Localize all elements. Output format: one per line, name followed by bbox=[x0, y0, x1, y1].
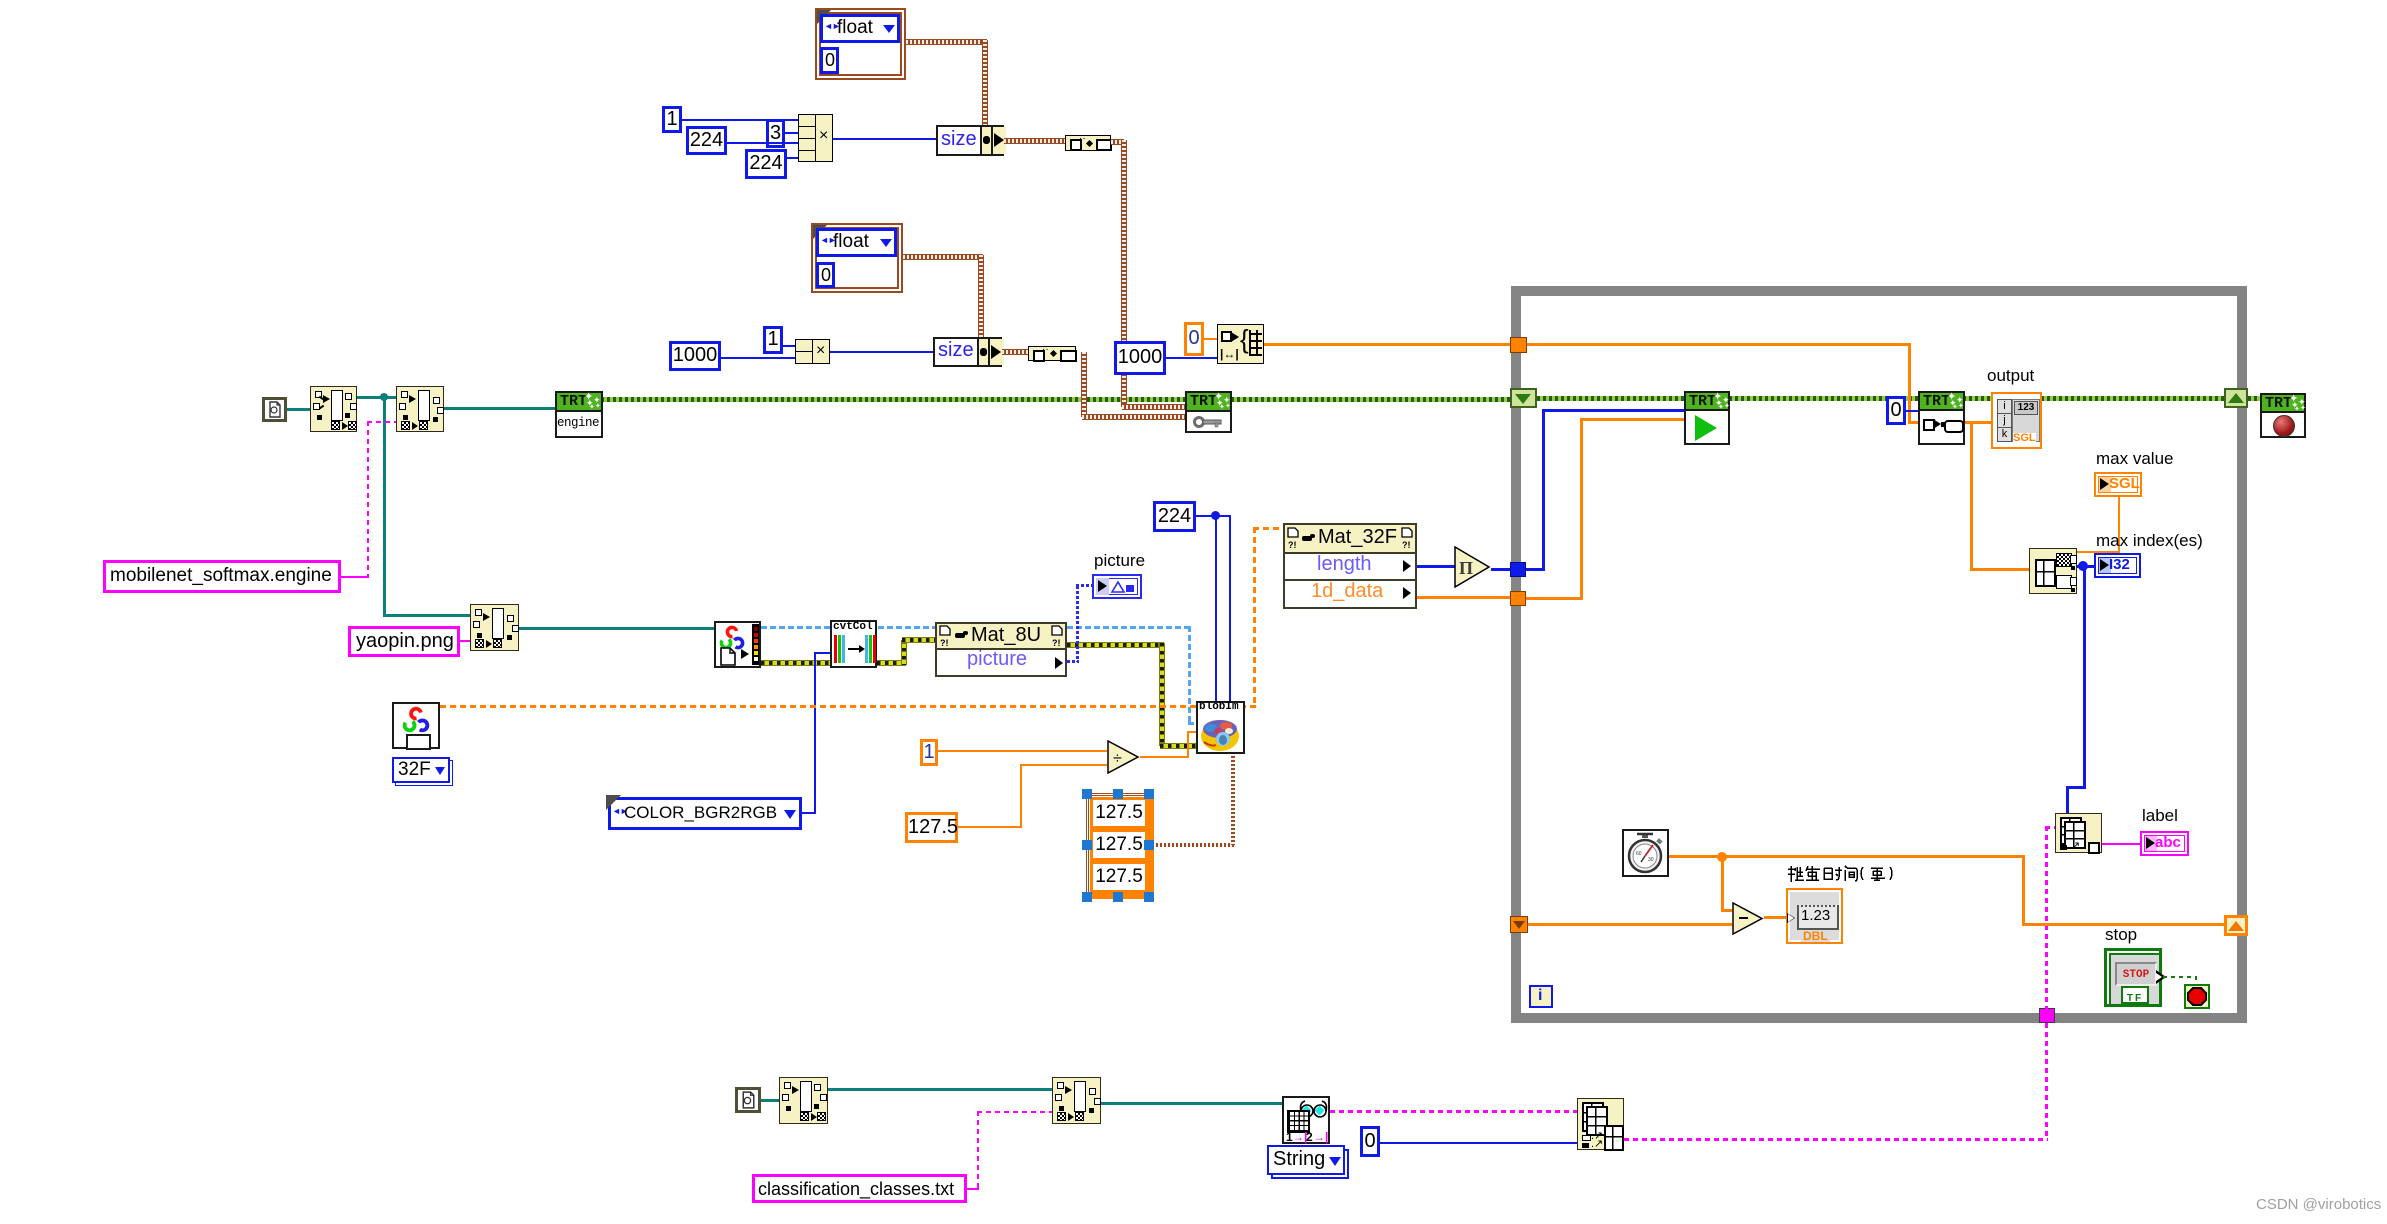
dropdown: 32F bbox=[392, 757, 450, 783]
dropdown: String bbox=[1267, 1145, 1345, 1175]
wire: brown size1 to bundle1 bbox=[1004, 139, 1065, 143]
shift register right lower (orange) bbox=[2224, 915, 2248, 936]
node: multiply array elements bbox=[1454, 546, 1491, 588]
node: array-to-cluster bundle (2) bbox=[1028, 346, 1076, 361]
wire: magenta classes to build path bbox=[967, 1188, 979, 1190]
wire: 0 to initialize array bbox=[1204, 338, 1217, 340]
wire: orange array to loop tunnel bbox=[1264, 343, 1516, 346]
indicator: output (SGL array) bbox=[1991, 392, 2042, 449]
wire: magenta label string from tunnel up to index array bbox=[2045, 826, 2048, 1009]
tunnel: orange (1d_data) bbox=[1510, 591, 1526, 606]
wire: blue to loop tunnel bbox=[1491, 568, 1516, 571]
string constant mobilenet_softmax.engine bbox=[103, 560, 341, 593]
numeric constant 127.5 (divisor) bbox=[905, 812, 958, 843]
tunnel: blue (length) bbox=[1510, 562, 1526, 577]
shift register right (green) bbox=[2224, 388, 2248, 408]
node: tick count (stopwatch) bbox=[1622, 829, 1669, 877]
wire: orange tick to subtract and loop bbox=[1669, 855, 1723, 858]
wire: green TRT engine refnum main line bbox=[601, 397, 1512, 402]
node: TRT destroy bbox=[2260, 393, 2306, 438]
wire: orange max value up to SGL indicator bbox=[2077, 551, 2120, 553]
wire: magenta label to loop (long) bbox=[1624, 1138, 2048, 1141]
wire: yellow Mat imread->cvtCol bbox=[761, 661, 830, 665]
label max value bbox=[2096, 449, 2173, 469]
svg-text:?!: ?! bbox=[1052, 638, 1061, 647]
indicator: I32 (max index) bbox=[2094, 553, 2141, 578]
wire: divide out to blobImage bbox=[1140, 756, 1189, 758]
wire: magenta index array to abc indicator bbox=[2102, 843, 2140, 845]
numeric constant 224 (blob size) bbox=[1153, 501, 1196, 532]
node: build path (classes) bbox=[1052, 1077, 1101, 1124]
wire: light blue Mat_8U to blobImage bbox=[1067, 626, 1191, 629]
while loop border bbox=[1511, 286, 2247, 1023]
numeric constant 224 (a) bbox=[686, 126, 727, 155]
wire: teal strip to build path with junction bbox=[357, 396, 396, 399]
wire: compound2 to size2 bbox=[830, 351, 933, 353]
node: Mat_8U property node bbox=[935, 622, 1067, 677]
indicator: abc (label) bbox=[2140, 831, 2189, 856]
label max index(es) bbox=[2096, 531, 2203, 551]
wire: teal build path to TRT engine bbox=[444, 407, 555, 410]
wire: magenta string array read to index array bbox=[1330, 1110, 1577, 1113]
numeric constant 0 (orange) bbox=[1184, 322, 1204, 356]
svg-text:30: 30 bbox=[1648, 857, 1654, 863]
wire: blue max index to I32 and down bbox=[2077, 565, 2094, 568]
wire: teal vi to strip path (bottom) bbox=[761, 1099, 779, 1102]
shift register left lower (orange) bbox=[1510, 916, 1528, 933]
string constant yaopin.png bbox=[348, 626, 460, 657]
wire: 1000 to compound2 bbox=[721, 357, 795, 359]
wire: orange 1d_data to loop tunnel bbox=[1417, 596, 1516, 599]
compound arithmetic multiply (4 inputs) bbox=[798, 114, 833, 162]
wire: 127.5 to divide bbox=[958, 826, 1022, 828]
wire: green boolean stop to condition bbox=[2163, 976, 2197, 978]
tunnel: magenta bottom (label string) bbox=[2039, 1008, 2055, 1023]
wire: 224a to compound bbox=[727, 142, 798, 144]
wire: 1 to divide bbox=[938, 750, 1107, 752]
wire: blue 224 to blobImage (two branches) bbox=[1196, 515, 1231, 517]
svg-text:Π: Π bbox=[1459, 558, 1473, 578]
node: index array (label lookup) bbox=[2055, 813, 2102, 853]
wire: brown bundle1 down to TRT key bbox=[1111, 140, 1124, 144]
node: current VI path icon (bottom) bbox=[735, 1087, 761, 1113]
wire: yellow Mat cvtCol->Mat_8U bbox=[877, 661, 906, 665]
node: build path (engine) bbox=[396, 386, 444, 432]
shift register left (green) bbox=[1510, 388, 1537, 408]
control: stop button bbox=[2104, 948, 2162, 1007]
node: array max & min bbox=[2029, 548, 2077, 594]
loop condition terminal (stop sign) bbox=[2184, 984, 2210, 1009]
svg-text:?!: ?! bbox=[1288, 540, 1297, 549]
wire: yellow Mat Mat_8U->blobImage bbox=[1067, 643, 1164, 647]
wire: teal vi path to strip path bbox=[287, 408, 310, 411]
wire: orange subtract to DBL bbox=[1764, 916, 1786, 919]
numeric constant 3 bbox=[766, 119, 785, 148]
node: strip path bbox=[310, 386, 357, 432]
selection handles on cluster bbox=[1082, 789, 1092, 799]
wire: green refnum inside loop bbox=[1537, 396, 2226, 401]
svg-text:60: 60 bbox=[1636, 851, 1642, 857]
wire: blue length to multiply-elements bbox=[1417, 565, 1455, 568]
node: array-to-cluster bundle (1) bbox=[1065, 135, 1111, 151]
wire: brown cluster from float1 to size1 bbox=[906, 40, 987, 44]
node: TRT key (load engine) bbox=[1185, 391, 1232, 433]
wire: orange previous time from shift register to subtract bbox=[1528, 923, 1732, 926]
node: current VI path icon bbox=[262, 397, 287, 422]
node: TRT create engine bbox=[555, 391, 603, 438]
node: Mat_32F property node bbox=[1283, 523, 1417, 609]
wire: brown size2 to bundle2 bbox=[1002, 350, 1028, 354]
wire: teal strip to build path (bottom) bbox=[828, 1088, 1052, 1091]
watermark bbox=[2256, 1196, 2381, 1213]
numeric constant 1 (orange) bbox=[920, 739, 938, 766]
numeric constant 1000 bbox=[669, 341, 721, 371]
compound arithmetic multiply (2 inputs) bbox=[795, 339, 830, 364]
wire: 1b to compound2 bbox=[783, 345, 795, 347]
label output bbox=[1987, 366, 2034, 386]
constant: OpenCV mat type (32F) bbox=[392, 702, 440, 749]
node: initialize array bbox=[1217, 324, 1264, 364]
wire: 3 to compound bbox=[785, 132, 798, 134]
svg-text:÷: ÷ bbox=[1113, 750, 1122, 767]
numeric constant 1 (b) bbox=[763, 326, 783, 354]
wire: orange 1d_data inside loop bbox=[1526, 597, 1583, 600]
numeric constant 224 (b) bbox=[745, 149, 787, 179]
enum constant COLOR_BGR2RGB bbox=[608, 797, 802, 830]
wire: orange TRT fetch to output indicator and down bbox=[1965, 421, 1991, 424]
node: cvtColor bbox=[830, 620, 877, 668]
node: size (1) bbox=[936, 125, 1004, 156]
node: index array (bottom) bbox=[1577, 1098, 1624, 1150]
node: divide bbox=[1107, 740, 1140, 774]
wire: brown bundle2 down to TRT key bbox=[1082, 352, 1086, 417]
wire: green refnum to destroy node bbox=[2248, 396, 2262, 401]
node: build path (yaopin) bbox=[470, 604, 519, 651]
node: read delimited spreadsheet bbox=[1282, 1096, 1330, 1144]
enum constant float (cluster 2) bbox=[811, 223, 903, 293]
enum constant float (cluster 1) bbox=[815, 8, 906, 80]
svg-text:?!: ?! bbox=[1402, 540, 1411, 549]
wire: teal yaopin path to imread bbox=[519, 627, 714, 630]
node: strip path (bottom) bbox=[779, 1077, 828, 1124]
loop iteration terminal i bbox=[1529, 985, 1553, 1008]
wire: brown cluster from float2 to size2 bbox=[903, 255, 983, 259]
numeric constant 0 (row index) bbox=[1360, 1126, 1380, 1157]
wire: orange init array inside loop to TRT fetch bbox=[1527, 343, 1911, 346]
numeric constant 0 (output index) bbox=[1886, 396, 1906, 425]
wire: blue 0 to index array (bottom) bbox=[1380, 1142, 1577, 1144]
wire: blue length inside loop bbox=[1526, 568, 1545, 571]
node: blobImage bbox=[1196, 701, 1245, 754]
wire: brown mean cluster to blobImage bbox=[1154, 843, 1234, 847]
numeric constant 1000 (iterations) bbox=[1114, 341, 1166, 375]
node: cv imread bbox=[714, 621, 761, 668]
numeric constant 1 bbox=[662, 106, 682, 133]
wire: magenta yaopin to build path bbox=[460, 640, 470, 642]
indicator: SGL (max value) bbox=[2094, 472, 2142, 497]
cluster constant {127.5,127.5,127.5} bbox=[1086, 793, 1152, 897]
wire: orange dashed 32F type to blobImage/Mat_32F bbox=[440, 705, 1256, 708]
wire: 0 to TRT fetch bbox=[1906, 410, 1918, 412]
wire: compound1 to size1 bbox=[833, 138, 936, 140]
label picture bbox=[1094, 551, 1145, 571]
node: subtract bbox=[1732, 902, 1764, 935]
wire: 224b to compound bbox=[787, 157, 798, 159]
node: TRT get output bbox=[1918, 391, 1965, 445]
label 推理时间（秒） bbox=[1787, 864, 1917, 883]
wire: 1000 to initialize array bbox=[1166, 357, 1217, 359]
svg-text:?!: ?! bbox=[940, 638, 949, 647]
node: TRT run inference bbox=[1684, 391, 1730, 445]
wire: blue zigzag picture to indicator bbox=[1067, 660, 1079, 663]
string constant classification_classes.txt bbox=[752, 1174, 967, 1203]
wire: blue enum to cvtColor bbox=[802, 812, 816, 814]
wire: 1 to compound bbox=[682, 119, 798, 121]
tunnel: orange top-left bbox=[1510, 337, 1527, 353]
wire: teal build path to read file bbox=[1101, 1102, 1282, 1105]
label stop bbox=[2105, 925, 2137, 945]
label label bbox=[2142, 806, 2178, 826]
wire: light blue image imread->cvtCol->Mat_8U bbox=[761, 626, 935, 629]
node: size (2) bbox=[933, 337, 1002, 367]
wire: teal branch down to yaopin build path bbox=[383, 397, 386, 615]
indicator: DBL 推理时间 bbox=[1786, 888, 1843, 944]
indicator: picture bbox=[1092, 574, 1142, 599]
wire: magenta engine name to build path bbox=[341, 576, 369, 578]
